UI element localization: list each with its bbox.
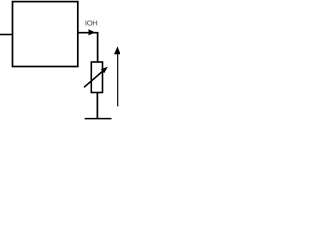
- wire (vertical down to resistor R1): [97, 33, 99, 62]
- wire (input stub into left side of box): [0, 34, 13, 36]
- current direction arrow (upward, right side): [114, 46, 121, 106]
- block U1 (driver output box): [13, 2, 78, 67]
- ground rail (bottom horizontal line): [85, 118, 112, 120]
- svg-text:IOH: IOH: [85, 19, 98, 28]
- arrowhead IOH current direction: [89, 29, 96, 35]
- variable-resistor adjustment arrow (diagonal through R1): [84, 67, 108, 88]
- wire (resistor bottom lead): [96, 93, 98, 119]
- resistor R1 body (variable resistor rectangle): [91, 62, 102, 93]
- wire IOH (horizontal from box output): [78, 32, 99, 34]
